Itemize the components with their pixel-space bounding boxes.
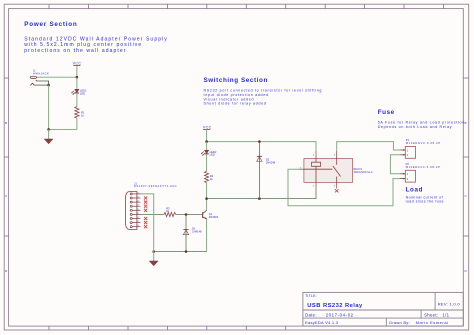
wire: VCC to LED1 — [76, 77, 78, 89]
svg-text:protections on the wall adapte: protections on the wall adapter — [24, 48, 126, 54]
wire: jack down — [48, 85, 50, 129]
svg-text:2017-04-02: 2017-04-02 — [326, 312, 354, 317]
svg-text:SRD-12VDC-SL-C: SRD-12VDC-SL-C — [354, 172, 373, 174]
svg-text:1N4148: 1N4148 — [266, 160, 276, 164]
wire: P1 pin2 to P2 pin1 — [390, 155, 400, 174]
power flag VCC (switching section) — [203, 125, 212, 141]
svg-text:VCC: VCC — [73, 61, 82, 65]
wire: base — [176, 214, 203, 216]
svg-text:load sizes the fuse: load sizes the fuse — [406, 200, 444, 204]
wire: bottom rail power — [49, 128, 77, 130]
junction rail/gnd — [152, 250, 155, 253]
ground (switching section) — [149, 252, 158, 266]
svg-text:EasyEDA V4.1.3: EasyEDA V4.1.3 — [305, 320, 339, 325]
connector J1 barrel jack HMAJACK — [30, 70, 49, 86]
power flag VCC (power section) — [73, 61, 82, 77]
svg-text:Visual indicator added: Visual indicator added — [204, 97, 255, 101]
wire: relay contact to fuse P1 — [337, 142, 401, 151]
svg-text:Drawn By:: Drawn By: — [389, 320, 410, 325]
svg-text:Input diode protection added: Input diode protection added — [204, 93, 269, 97]
svg-text:LED: LED — [210, 153, 215, 157]
svg-text:USB RS232 Relay: USB RS232 Relay — [307, 303, 363, 309]
no-connect X marks — [144, 196, 147, 228]
connector P2 WJ2EDGVC-5.08-2P — [400, 162, 441, 182]
svg-text:1/1: 1/1 — [442, 312, 449, 317]
junction base/D1 — [185, 213, 188, 216]
wire: emitter down — [206, 219, 208, 252]
wire: relay pin2 to P2 pin2 — [288, 169, 400, 206]
svg-text:5A Fuse for Relay and Load pro: 5A Fuse for Relay and Load protection — [378, 121, 465, 125]
wire: collector rail to relay coil- — [207, 189, 316, 199]
svg-text:VCC: VCC — [203, 125, 212, 129]
wire: LED2 to R2 — [206, 154, 208, 171]
note: load description — [406, 195, 444, 203]
wire: R1 to bottom rail — [76, 118, 78, 129]
junction rail/D1 — [185, 250, 188, 253]
svg-text:REV: 1.0.0: REV: 1.0.0 — [438, 301, 461, 306]
note: power description — [24, 36, 168, 53]
svg-text:RELAY1: RELAY1 — [354, 168, 363, 171]
svg-text:TITLE:: TITLE: — [305, 294, 317, 298]
junction at VCC / tip — [76, 76, 79, 79]
junction D2 bottom — [258, 197, 261, 200]
svg-text:Load: Load — [406, 186, 423, 193]
relay RELAY1 SRD-12VDC-SL-C — [299, 151, 373, 193]
svg-text:Date:: Date: — [305, 312, 317, 317]
svg-text:DS1037-09FNAKT74-0CC: DS1037-09FNAKT74-0CC — [134, 184, 177, 188]
svg-text:B: B — [5, 121, 7, 125]
svg-text:Mario Esmeral: Mario Esmeral — [416, 320, 449, 325]
LED LED2 — [201, 150, 216, 157]
resistor R1 1k — [75, 107, 85, 119]
note: switching description — [204, 89, 323, 106]
resistor R2 1k — [205, 171, 214, 183]
junction collector node — [205, 197, 208, 200]
diode D2 1N4148 (shunt) — [257, 142, 276, 199]
wire: DB9 pin to R3 — [140, 214, 164, 216]
note: fuse description — [378, 121, 465, 129]
ground (power section) — [44, 129, 53, 144]
svg-text:WJ2EDGVC-5.08-2P: WJ2EDGVC-5.08-2P — [406, 165, 441, 169]
svg-text:1N4148: 1N4148 — [192, 230, 202, 234]
svg-text:WJ2EDGVC-5.08-2P: WJ2EDGVC-5.08-2P — [406, 141, 441, 145]
wire: R2 to collector node — [206, 183, 208, 211]
svg-text:Depends on both Load and Relay: Depends on both Load and Relay — [378, 125, 453, 129]
svg-text:LED: LED — [80, 91, 85, 95]
pin stubs — [315, 151, 317, 159]
wire: jack tip to VCC rail — [37, 76, 77, 78]
diode D1 1N4148 (input protection) — [183, 215, 202, 252]
svg-text:Sheet:: Sheet: — [424, 312, 438, 317]
LED LED1 — [72, 89, 87, 96]
svg-text:HMAJACK: HMAJACK — [33, 72, 49, 76]
wire: LED1 to R1 — [76, 93, 78, 107]
svg-text:Shunt diode for relay added: Shunt diode for relay added — [204, 102, 267, 106]
junction VCC rail — [205, 140, 208, 143]
junction at jack sleeve/switch — [47, 84, 50, 87]
svg-text:Switching Section: Switching Section — [204, 77, 268, 84]
junction D2 top — [258, 140, 261, 143]
wire: VCC rail to relay coil+ — [207, 142, 316, 151]
connector P1 WJ2EDGVC-5.08-2P — [400, 138, 440, 159]
svg-text:Fuse: Fuse — [378, 109, 395, 116]
junction at rail/ground — [47, 128, 50, 131]
svg-text:2N3904: 2N3904 — [209, 215, 219, 219]
connector J1 DB9 DS1037-09FNAKT74-0CC — [126, 181, 178, 229]
wire: DB9 gnd pin drop — [140, 194, 153, 252]
transistor Q1 2N3904 — [203, 210, 219, 219]
wire: bottom rail switching — [154, 251, 207, 253]
resistor R3 1k — [164, 207, 176, 217]
svg-text:Power Section: Power Section — [24, 21, 77, 28]
no-connect X on pin 5 — [335, 189, 339, 192]
wire: VCC to LED2 — [206, 142, 208, 151]
